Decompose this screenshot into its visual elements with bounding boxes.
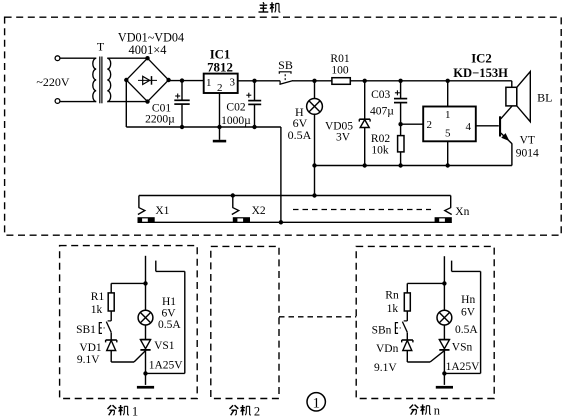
node IC1 ground	[217, 125, 221, 129]
svg-text:R01: R01	[330, 53, 349, 65]
svg-text:3V: 3V	[336, 131, 351, 143]
dashed continuation X2 to Xn	[293, 209, 431, 211]
label 主机 (main unit)	[259, 2, 281, 12]
wire to IC2 pin 2	[401, 123, 424, 125]
lamp H1	[138, 310, 153, 325]
wire return branch	[444, 372, 480, 374]
label 分机n	[410, 404, 431, 414]
wire H branch down	[314, 81, 316, 99]
wire C03 branch upper	[400, 81, 402, 99]
wire bridge minus down to ground bus	[125, 80, 127, 127]
IC2 KD-153H music IC box	[423, 107, 476, 142]
wire thyristor to ground node	[443, 350, 445, 385]
svg-text:6V: 6V	[161, 307, 176, 319]
svg-text:1A25V: 1A25V	[149, 360, 184, 372]
svg-text:R1: R1	[91, 291, 105, 303]
svg-text:1k: 1k	[387, 303, 399, 315]
wire IC2 pin5 to lower rail	[447, 141, 449, 165]
wire terminal to transformer primary bottom	[60, 101, 96, 103]
zener diode VD05	[359, 118, 370, 120]
extension n box (分机n enclosure)	[356, 246, 494, 398]
svg-text:1k: 1k	[91, 304, 103, 316]
svg-text:Xn: Xn	[455, 206, 469, 218]
connector X1 plug	[138, 207, 145, 214]
svg-text:VT: VT	[520, 134, 535, 146]
svg-text:C02: C02	[226, 101, 245, 113]
svg-text:2: 2	[426, 119, 432, 131]
node VD05 on lower rail	[363, 163, 367, 167]
transformer T primary winding	[93, 58, 96, 101]
wire return branch	[146, 372, 185, 374]
thyristor VS1	[140, 339, 150, 341]
svg-text:4001×4: 4001×4	[129, 43, 167, 57]
main unit box (主机 enclosure)	[5, 17, 562, 235]
node bridge left	[124, 78, 128, 82]
ground symbol main	[213, 140, 226, 143]
wire IC1 pin3 +12V rail to SB	[238, 80, 281, 82]
extension 1 box (分机1 enclosure)	[60, 246, 198, 399]
wire VD05 branch upper	[364, 81, 366, 119]
svg-text:6V: 6V	[461, 307, 476, 319]
wire terminal to transformer primary top	[60, 57, 96, 59]
svg-text:SB: SB	[278, 58, 293, 72]
resistor R1	[108, 293, 114, 311]
AC input terminal upper	[55, 56, 60, 61]
ground symbol extension	[436, 386, 453, 389]
node bridge bottom	[145, 99, 149, 103]
svg-text:IC2: IC2	[471, 52, 492, 66]
bridge inner diode	[138, 79, 157, 81]
svg-text:2: 2	[254, 404, 260, 418]
node IC2 pin1 tap	[446, 79, 450, 83]
svg-text:C03: C03	[371, 89, 390, 101]
node C01 to bus	[180, 125, 184, 129]
IC1 7812 regulator box	[204, 74, 238, 93]
wire lower socket bus	[138, 221, 452, 223]
connector Xn plug	[445, 207, 452, 214]
resistor R02	[398, 136, 404, 152]
node ground junction	[143, 371, 147, 375]
switch SB1	[108, 320, 112, 322]
AC input terminal lower	[55, 99, 60, 104]
transistor VT 9014	[499, 116, 501, 136]
resistor Rn	[404, 293, 410, 311]
node extensionN branch	[442, 281, 446, 285]
svg-text:9.1V: 9.1V	[77, 354, 100, 366]
dashed link extension2 to extension n	[279, 316, 356, 318]
wire lower rail (lamp to emitter)	[315, 165, 512, 167]
svg-text:4: 4	[465, 121, 471, 133]
connector Xn socket	[435, 217, 452, 223]
label 分机1	[108, 405, 129, 415]
node C02 tap	[252, 79, 256, 83]
svg-text:BL: BL	[537, 91, 552, 105]
svg-text:R02: R02	[371, 133, 390, 145]
wire Xn drop	[450, 196, 452, 208]
svg-text:VSn: VSn	[452, 342, 473, 354]
wire 0V bus drop to socket rail	[280, 127, 282, 222]
node lamp on lower rail	[312, 163, 316, 167]
wire X2 drop	[232, 196, 234, 208]
wire IC2 pin4 to VT base	[476, 125, 499, 127]
wire R02 to lower rail	[400, 152, 402, 166]
lamp Hn	[437, 310, 452, 325]
svg-text:SB1: SB1	[76, 324, 96, 336]
wire VT emitter down	[511, 143, 513, 165]
bridge rectifier diamond	[126, 58, 168, 101]
connector X1 socket	[138, 217, 155, 223]
thyristor VSn	[439, 339, 449, 341]
svg-text:KD−153H: KD−153H	[453, 66, 508, 80]
wire lamp to thyristor	[443, 325, 445, 340]
transformer T core	[99, 57, 101, 104]
wire IC2 pin1 to +12V rail	[447, 81, 449, 107]
wire extensionN line in	[443, 256, 445, 310]
svg-text:7812: 7812	[207, 60, 233, 74]
svg-text:9.1V: 9.1V	[374, 362, 397, 374]
svg-text:Hn: Hn	[461, 294, 475, 306]
speaker BL	[506, 87, 517, 106]
wire extension1 line in	[145, 256, 147, 310]
capacitor C01	[181, 81, 183, 101]
extension 2 box (分机2 enclosure)	[211, 246, 279, 398]
node lamp line to socket bus	[312, 193, 316, 197]
wire gate run	[111, 361, 134, 363]
ground symbol extension	[137, 386, 154, 389]
transformer T secondary winding	[107, 58, 110, 101]
node X2 tap	[231, 193, 235, 197]
svg-text:1: 1	[445, 109, 451, 121]
switch SB push button	[279, 72, 291, 74]
svg-text:X2: X2	[252, 205, 266, 217]
connector X2 socket	[233, 217, 250, 223]
svg-text:407µ: 407µ	[370, 105, 394, 117]
node bus corner to lower rail	[279, 220, 283, 224]
node R02 on lower rail	[398, 163, 402, 167]
svg-text:1A25V: 1A25V	[446, 361, 481, 373]
wire IC1 pin2 to ground	[219, 93, 221, 140]
svg-text:100: 100	[331, 64, 349, 76]
svg-text:2: 2	[217, 82, 223, 94]
wire SB to H node	[292, 80, 332, 82]
svg-text:n: n	[434, 404, 441, 418]
node H lamp tap	[312, 79, 316, 83]
resistor R01	[332, 78, 350, 85]
svg-text:1: 1	[206, 77, 212, 89]
wire thyristor to ground node	[145, 350, 147, 385]
svg-text:5: 5	[445, 128, 451, 140]
wire secondary bottom to bridge	[107, 101, 147, 103]
svg-text:VS1: VS1	[154, 340, 175, 352]
connector X2 plug	[232, 207, 239, 214]
wire VD05 branch lower	[364, 128, 366, 166]
svg-text:T: T	[97, 40, 105, 54]
wire bridge plus to IC1 pin1	[169, 80, 204, 82]
svg-text:0.5A: 0.5A	[288, 128, 312, 142]
svg-text:H1: H1	[162, 296, 176, 308]
svg-text:SBn: SBn	[372, 325, 392, 337]
switch SBn	[404, 320, 408, 322]
svg-text:9014: 9014	[516, 147, 539, 159]
zener diode VDn	[402, 339, 413, 341]
node C02 to bus	[252, 125, 256, 129]
capacitor C02	[254, 81, 256, 101]
svg-text:10k: 10k	[371, 145, 389, 157]
svg-text:VD1: VD1	[79, 342, 102, 354]
wire lamp H down to lower rail and socket bus	[314, 114, 316, 195]
node bridge right	[166, 78, 170, 82]
node C01 tap	[180, 78, 184, 82]
svg-text:X1: X1	[155, 205, 169, 217]
svg-text:1: 1	[132, 404, 138, 418]
node C03 bottom to IC2 pin2	[398, 122, 402, 126]
node bridge top	[145, 56, 149, 60]
zener diode VD1	[106, 339, 117, 341]
lamp H	[307, 99, 323, 115]
svg-text:0.5A: 0.5A	[158, 319, 181, 331]
wire secondary top to bridge	[107, 57, 147, 59]
svg-text:VDn: VDn	[376, 343, 399, 355]
node ground junction	[442, 371, 446, 375]
svg-text:Rn: Rn	[385, 289, 399, 301]
wire gate run	[407, 361, 430, 363]
node IC2 pin5 on lower rail	[446, 163, 450, 167]
capacitor C03	[394, 98, 407, 100]
wire +12V rail corner to speaker	[511, 81, 513, 88]
label 分机2	[230, 405, 251, 415]
svg-text:1: 1	[312, 395, 320, 411]
svg-text:~220V: ~220V	[36, 75, 69, 89]
wire upper socket bus	[139, 195, 451, 197]
wire R01 to speaker corner	[350, 80, 512, 82]
figure number ① circle	[307, 393, 325, 411]
node C03 tap	[398, 79, 402, 83]
svg-text:3: 3	[230, 76, 236, 88]
node extension1 branch	[143, 281, 147, 285]
node VD05 tap	[363, 79, 367, 83]
wire 0V bus	[126, 126, 281, 128]
svg-text:1000µ: 1000µ	[221, 115, 251, 127]
wire lamp to thyristor	[145, 325, 147, 340]
wire branch to resistor	[407, 282, 444, 284]
wire X1 drop	[138, 196, 140, 208]
wire branch to resistor	[111, 282, 145, 284]
svg-text:0.5A: 0.5A	[455, 324, 478, 336]
svg-text:2200µ: 2200µ	[145, 113, 175, 125]
